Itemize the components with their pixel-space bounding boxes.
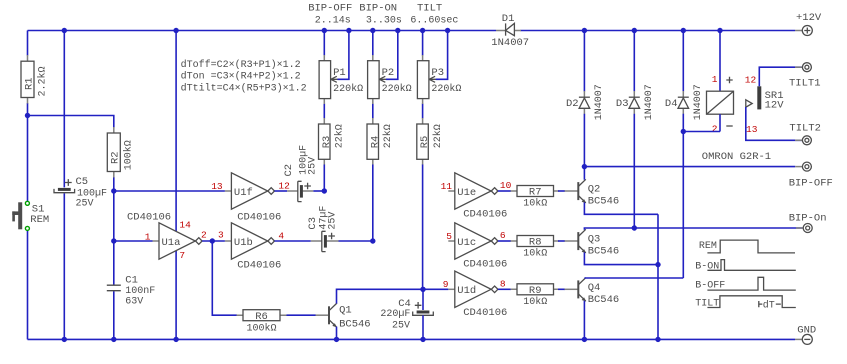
diode D2 1N4007 — [566, 31, 605, 167]
wire node A to R2 top — [28, 116, 114, 128]
svg-text:1N4007: 1N4007 — [491, 37, 529, 49]
svg-text:U1f: U1f — [234, 187, 253, 199]
wire R7 to Q2 base — [558, 190, 565, 192]
svg-text:8: 8 — [500, 278, 506, 289]
svg-text:R1: R1 — [23, 77, 35, 90]
svg-text:Q1: Q1 — [339, 305, 352, 317]
wire R3 bottom to bus — [323, 165, 325, 192]
svg-text:1N4007: 1N4007 — [693, 84, 704, 120]
svg-text:1N4007: 1N4007 — [594, 84, 605, 120]
wire C1 to GND rail — [113, 291, 115, 339]
wire U1f input bus — [114, 190, 225, 192]
svg-text:6: 6 — [500, 230, 506, 241]
svg-text:R3: R3 — [321, 136, 333, 149]
wire U1a output node — [202, 240, 225, 242]
wire R9 to Q4 base — [558, 288, 565, 290]
resistor R3 — [319, 118, 346, 165]
svg-text:3: 3 — [218, 229, 224, 240]
svg-text:BC546: BC546 — [339, 318, 371, 330]
capacitor C5 — [54, 176, 107, 210]
wire Q1 collector to U1d node — [337, 289, 424, 304]
transistor Q3 BC546 — [565, 229, 620, 257]
svg-text:1: 1 — [712, 74, 718, 85]
wire contact to TILT1 — [759, 67, 802, 86]
wire relay coil to D4 — [683, 131, 720, 133]
svg-text:REM: REM — [30, 214, 49, 226]
wire U1b output — [275, 240, 311, 242]
svg-text:100kΩ: 100kΩ — [246, 322, 276, 334]
op-amp U1a CD40106 inverter — [127, 211, 202, 259]
svg-text:U1e: U1e — [457, 187, 476, 199]
terminal BIP-On — [789, 212, 827, 232]
op-amp U1e CD40106 inverter — [448, 173, 507, 221]
terminal GND — [795, 324, 816, 344]
relay SR1 contact — [746, 86, 760, 109]
svg-text:R2: R2 — [110, 151, 122, 164]
svg-text:P2: P2 — [382, 67, 395, 79]
svg-text:dTtilt=C4×(R5+P3)×1.2: dTtilt=C4×(R5+P3)×1.2 — [181, 82, 307, 94]
resistor R4 — [367, 118, 394, 165]
svg-text:12: 12 — [745, 75, 757, 86]
svg-text:GND: GND — [797, 324, 816, 336]
wire C5 top — [63, 31, 65, 188]
svg-text:13: 13 — [211, 181, 223, 192]
svg-text:CD40106: CD40106 — [237, 260, 281, 272]
svg-text:CD40106: CD40106 — [463, 209, 507, 221]
resistor R1 — [21, 55, 48, 104]
svg-text:BC546: BC546 — [588, 245, 620, 257]
svg-text:22kΩ: 22kΩ — [432, 124, 444, 148]
op-amp U1d CD40106 inverter — [448, 271, 507, 319]
svg-text:D1: D1 — [502, 13, 515, 25]
wire C3 to R4 node — [339, 240, 373, 242]
svg-text:R8: R8 — [529, 237, 542, 249]
terminal +12V — [795, 12, 822, 35]
svg-text:Q3: Q3 — [588, 234, 601, 246]
svg-text:U1d: U1d — [457, 285, 476, 297]
wire R2-C1 column — [113, 191, 115, 285]
wire GND bottom rail — [28, 338, 796, 340]
node junction dots bottom rail — [62, 337, 661, 342]
potentiometer P1 — [319, 31, 363, 119]
wire R6 to Q1 base — [287, 314, 316, 316]
transistor Q4 BC546 — [565, 278, 620, 306]
svg-text:Q4: Q4 — [588, 282, 601, 294]
svg-text:9: 9 — [443, 279, 449, 290]
wire Q4 emitter to GND — [583, 301, 585, 340]
wire S1 to GND rail — [27, 230, 29, 339]
wire R8 to Q3 base — [558, 240, 565, 242]
svg-text:BIP-OFF: BIP-OFF — [789, 177, 833, 189]
wire U1a pin7 ground — [175, 251, 177, 340]
svg-text:D3: D3 — [616, 98, 629, 110]
svg-text:22kΩ: 22kΩ — [382, 124, 394, 148]
wire Q2 collector to BIP-OFF node — [583, 167, 585, 180]
resistor R8 — [511, 236, 560, 260]
wire C2 to R3 node — [313, 190, 324, 192]
waveform B-OFF trace — [707, 277, 795, 290]
svg-text:3..30s: 3..30s — [366, 16, 402, 27]
wire Q3 collector BIP-On — [584, 228, 802, 230]
svg-text:BIP-On: BIP-On — [789, 212, 827, 224]
svg-text:CD40106: CD40106 — [463, 259, 507, 271]
relay SR1 coil — [707, 31, 734, 132]
svg-text:dToff=C2×(R3+P1)×1.2: dToff=C2×(R3+P1)×1.2 — [181, 59, 301, 71]
svg-text:dTon =C3×(R4+P2)×1.2: dTon =C3×(R4+P2)×1.2 — [181, 71, 301, 83]
svg-text:OMRON G2R-1: OMRON G2R-1 — [702, 151, 771, 163]
wire R2 bottom to row bus — [113, 177, 115, 191]
svg-text:25V: 25V — [307, 157, 318, 175]
node junction dots mid — [25, 113, 686, 292]
wire U1a pin14 supply — [175, 31, 177, 232]
wire node2 down to R6 — [212, 241, 237, 315]
svg-text:2..14s: 2..14s — [315, 16, 351, 27]
wire Q3 emitter to bus — [584, 252, 658, 264]
terminal TILT2 — [789, 123, 821, 145]
resistor R9 — [511, 284, 560, 308]
svg-text:1: 1 — [145, 231, 151, 242]
resistor R6 — [237, 310, 287, 335]
svg-text:U1a: U1a — [162, 237, 181, 249]
svg-text:R5: R5 — [419, 136, 431, 149]
svg-text:BIP-OFF: BIP-OFF — [308, 3, 352, 15]
waveform TILT trace — [707, 296, 795, 308]
svg-text:Q2: Q2 — [588, 184, 601, 196]
svg-text:100kΩ: 100kΩ — [123, 140, 135, 170]
svg-text:P3: P3 — [431, 67, 444, 79]
svg-text:REM: REM — [699, 241, 717, 252]
svg-text:+12V: +12V — [796, 12, 822, 24]
svg-text:2: 2 — [712, 123, 718, 134]
svg-text:BC546: BC546 — [588, 195, 620, 207]
svg-text:63V: 63V — [125, 297, 143, 308]
svg-text:R9: R9 — [529, 285, 542, 297]
svg-text:R7: R7 — [529, 187, 542, 199]
svg-text:220kΩ: 220kΩ — [333, 83, 363, 95]
svg-text:220kΩ: 220kΩ — [382, 83, 412, 95]
svg-text:25V: 25V — [327, 212, 338, 230]
svg-text:12V: 12V — [765, 100, 785, 112]
svg-text:2: 2 — [201, 230, 207, 241]
wire U1d input bus — [423, 288, 448, 290]
wire R1 to REM node — [27, 103, 29, 201]
wire U1a input — [114, 240, 153, 242]
wire R4 bottom to U1c input node — [372, 165, 374, 242]
op-amp U1c CD40106 inverter — [448, 223, 507, 271]
waveform REM trace — [707, 240, 795, 253]
svg-text:220µF: 220µF — [380, 309, 410, 320]
svg-text:R4: R4 — [369, 136, 381, 149]
waveform dT interval marker — [759, 300, 781, 312]
wire left supply column — [27, 31, 29, 56]
transistor Q2 BC546 — [565, 179, 620, 207]
svg-text:C1: C1 — [125, 275, 138, 287]
svg-text:7: 7 — [179, 250, 185, 261]
wire contact common to TILT2 — [746, 107, 802, 140]
svg-text:12: 12 — [278, 180, 290, 191]
svg-text:220kΩ: 220kΩ — [431, 83, 461, 95]
svg-text:D4: D4 — [665, 98, 678, 110]
terminal BIP-OFF — [789, 162, 833, 189]
svg-text:U1c: U1c — [457, 237, 476, 249]
svg-text:U1b: U1b — [234, 237, 253, 249]
svg-text:14: 14 — [179, 219, 191, 230]
svg-text:25V: 25V — [76, 199, 94, 210]
capacitor C1 — [107, 275, 156, 308]
op-amp U1b CD40106 inverter — [225, 223, 281, 272]
svg-text:C2: C2 — [283, 164, 295, 177]
svg-text:2.2kΩ: 2.2kΩ — [36, 66, 48, 96]
wire Q4 collector to relay node — [584, 277, 683, 279]
svg-text:1N4007: 1N4007 — [644, 84, 655, 120]
svg-text:10kΩ: 10kΩ — [523, 198, 547, 210]
wire +12V top rail left of D1 — [28, 30, 497, 32]
diode D1 1N4007 — [491, 13, 529, 49]
terminal TILT1 — [789, 63, 821, 90]
diode D3 1N4007 — [616, 31, 655, 229]
wire BIP-OFF — [584, 166, 795, 168]
svg-text:5: 5 — [446, 231, 452, 242]
capacitor C3 — [307, 206, 338, 252]
svg-text:TILT1: TILT1 — [789, 77, 821, 89]
svg-text:22kΩ: 22kΩ — [334, 124, 346, 148]
svg-text:13: 13 — [746, 124, 758, 135]
svg-text:C4: C4 — [398, 298, 411, 310]
wire emitter bus — [657, 214, 659, 339]
switch S1 REM — [12, 201, 49, 230]
wire U1f output — [275, 190, 288, 192]
svg-text:BC546: BC546 — [588, 294, 620, 306]
waveform B-ON trace — [707, 260, 795, 271]
diode D4 1N4007 — [665, 31, 704, 279]
op-amp U1f CD40106 inverter — [225, 173, 281, 224]
svg-text:TILT: TILT — [417, 3, 442, 15]
svg-text:CD40106: CD40106 — [463, 307, 507, 319]
svg-text:R6: R6 — [255, 311, 268, 323]
svg-text:P1: P1 — [333, 67, 346, 79]
wire Q2 emitter to bus — [584, 202, 658, 214]
resistor R2 — [107, 127, 134, 178]
wire U1e output — [498, 190, 511, 192]
svg-text:10: 10 — [500, 180, 512, 191]
svg-text:4: 4 — [278, 230, 284, 241]
wire C5 bottom — [63, 193, 65, 339]
wire U1d output — [498, 288, 511, 290]
wire R5 bottom to U1d input node — [422, 165, 424, 290]
svg-text:dT: dT — [763, 300, 775, 312]
svg-text:D2: D2 — [566, 98, 579, 110]
svg-text:25V: 25V — [392, 320, 410, 331]
capacitor C4 — [380, 289, 433, 339]
wire +12V top rail right of D1 — [521, 30, 796, 32]
svg-text:C5: C5 — [76, 176, 89, 188]
svg-text:TILT2: TILT2 — [789, 123, 821, 135]
potentiometer P2 — [368, 31, 412, 119]
transistor Q1 BC546 — [316, 304, 371, 340]
svg-text:10kΩ: 10kΩ — [523, 248, 547, 260]
wire U1c output — [498, 240, 511, 242]
svg-text:11: 11 — [441, 181, 453, 192]
resistor R7 — [511, 186, 560, 210]
capacitor C2 — [283, 145, 318, 202]
svg-text:10kΩ: 10kΩ — [523, 296, 547, 308]
svg-text:CD40106: CD40106 — [127, 211, 171, 223]
resistor R5 — [417, 118, 444, 165]
potentiometer P3 — [417, 31, 461, 119]
svg-text:100nF: 100nF — [125, 286, 155, 297]
svg-text:CD40106: CD40106 — [237, 211, 281, 223]
node junction dots top rail — [62, 28, 723, 33]
svg-text:BIP-ON: BIP-ON — [359, 3, 397, 15]
svg-text:6..60sec: 6..60sec — [410, 16, 458, 27]
